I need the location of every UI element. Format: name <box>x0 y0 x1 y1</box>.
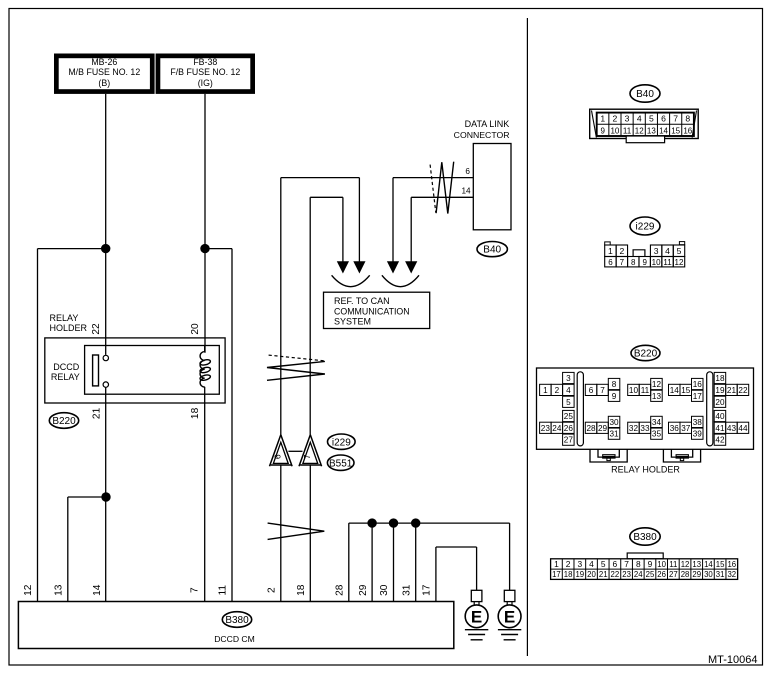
svg-text:16: 16 <box>727 560 736 569</box>
svg-text:1: 1 <box>543 386 548 395</box>
svg-text:(IG): (IG) <box>198 78 213 88</box>
svg-text:7: 7 <box>620 258 625 267</box>
svg-text:10: 10 <box>610 126 619 135</box>
svg-text:5: 5 <box>677 246 682 256</box>
svg-text:10: 10 <box>629 386 639 395</box>
svg-text:15: 15 <box>716 560 725 569</box>
svg-text:8: 8 <box>612 380 617 389</box>
svg-text:9: 9 <box>642 258 647 267</box>
svg-text:5: 5 <box>601 559 606 569</box>
svg-text:37: 37 <box>681 424 691 433</box>
svg-text:SYSTEM: SYSTEM <box>334 316 371 326</box>
svg-text:7: 7 <box>624 559 629 569</box>
svg-text:18: 18 <box>296 584 307 596</box>
svg-text:5: 5 <box>649 114 654 124</box>
svg-text:7: 7 <box>302 454 312 459</box>
svg-text:22: 22 <box>738 386 748 395</box>
svg-text:30: 30 <box>379 584 390 596</box>
svg-text:16: 16 <box>693 380 703 389</box>
svg-text:RELAY HOLDER: RELAY HOLDER <box>611 465 680 475</box>
svg-text:21: 21 <box>91 407 102 419</box>
svg-text:6: 6 <box>613 559 618 569</box>
svg-text:B220: B220 <box>634 349 658 360</box>
svg-text:RELAY: RELAY <box>51 372 80 382</box>
svg-text:43: 43 <box>727 424 737 433</box>
svg-text:2: 2 <box>267 587 278 593</box>
svg-text:2: 2 <box>619 246 624 256</box>
svg-text:22: 22 <box>611 570 620 579</box>
svg-text:9: 9 <box>601 126 606 135</box>
svg-text:8: 8 <box>636 559 641 569</box>
svg-text:28: 28 <box>586 424 596 433</box>
svg-text:4: 4 <box>589 559 594 569</box>
svg-text:REF. TO CAN: REF. TO CAN <box>334 296 390 306</box>
svg-text:27: 27 <box>669 570 678 579</box>
svg-text:10: 10 <box>652 258 661 267</box>
svg-text:13: 13 <box>54 584 65 596</box>
svg-text:6: 6 <box>608 258 613 267</box>
svg-text:29: 29 <box>598 424 608 433</box>
svg-text:12: 12 <box>23 584 34 596</box>
svg-text:30: 30 <box>704 570 713 579</box>
svg-text:25: 25 <box>564 412 574 421</box>
svg-text:M/B FUSE NO. 12: M/B FUSE NO. 12 <box>68 67 140 77</box>
svg-text:17: 17 <box>693 392 703 401</box>
svg-text:7: 7 <box>190 587 201 593</box>
svg-text:7: 7 <box>600 386 605 395</box>
svg-text:21: 21 <box>727 386 737 395</box>
svg-text:40: 40 <box>715 412 725 421</box>
svg-text:16: 16 <box>683 126 692 135</box>
svg-text:E: E <box>471 607 482 626</box>
svg-text:CONNECTOR: CONNECTOR <box>454 130 510 140</box>
svg-text:4: 4 <box>566 386 571 395</box>
svg-text:14: 14 <box>461 186 471 195</box>
svg-text:11: 11 <box>218 585 229 596</box>
svg-text:3: 3 <box>577 559 582 569</box>
svg-text:31: 31 <box>609 430 619 439</box>
svg-text:DATA LINK: DATA LINK <box>465 119 510 129</box>
svg-text:11: 11 <box>669 560 677 569</box>
svg-text:42: 42 <box>715 436 725 445</box>
svg-text:12: 12 <box>675 258 684 267</box>
svg-text:25: 25 <box>646 570 655 579</box>
svg-text:14: 14 <box>92 584 103 596</box>
svg-text:DCCD CM: DCCD CM <box>214 634 255 644</box>
svg-text:28: 28 <box>335 584 346 596</box>
svg-text:E: E <box>504 607 515 626</box>
svg-text:3: 3 <box>654 246 659 256</box>
svg-text:10: 10 <box>657 560 666 569</box>
svg-text:5: 5 <box>566 398 571 407</box>
svg-text:31: 31 <box>716 570 725 579</box>
svg-text:3: 3 <box>566 374 571 383</box>
svg-text:30: 30 <box>609 418 619 427</box>
svg-text:COMMUNICATION: COMMUNICATION <box>334 306 410 316</box>
svg-text:11: 11 <box>623 126 632 135</box>
svg-text:26: 26 <box>564 424 574 433</box>
svg-text:9: 9 <box>648 559 653 569</box>
svg-text:MT-10064: MT-10064 <box>708 654 758 666</box>
svg-text:24: 24 <box>634 570 643 579</box>
svg-text:39: 39 <box>693 430 703 439</box>
svg-text:B220: B220 <box>52 416 76 427</box>
svg-text:33: 33 <box>640 424 650 433</box>
svg-text:36: 36 <box>670 424 680 433</box>
svg-text:B551: B551 <box>329 458 353 469</box>
svg-text:12: 12 <box>681 560 690 569</box>
svg-text:34: 34 <box>652 418 662 427</box>
svg-text:26: 26 <box>657 570 666 579</box>
svg-text:B380: B380 <box>633 532 657 543</box>
svg-text:38: 38 <box>693 418 703 427</box>
svg-text:32: 32 <box>727 570 736 579</box>
svg-text:i229: i229 <box>332 437 351 448</box>
svg-text:6: 6 <box>272 454 282 459</box>
svg-text:6: 6 <box>661 114 666 124</box>
svg-text:44: 44 <box>738 424 748 433</box>
svg-text:1: 1 <box>600 114 605 124</box>
svg-text:14: 14 <box>659 126 668 135</box>
svg-text:20: 20 <box>190 323 201 335</box>
svg-text:4: 4 <box>665 246 670 256</box>
svg-text:29: 29 <box>358 584 369 596</box>
svg-text:2: 2 <box>566 559 571 569</box>
svg-text:17: 17 <box>552 570 561 579</box>
svg-text:15: 15 <box>671 126 680 135</box>
svg-text:7: 7 <box>673 114 678 124</box>
svg-text:35: 35 <box>652 430 662 439</box>
svg-text:(B): (B) <box>98 78 110 88</box>
svg-text:28: 28 <box>681 570 690 579</box>
svg-text:HOLDER: HOLDER <box>50 323 88 333</box>
svg-text:32: 32 <box>629 424 639 433</box>
svg-text:9: 9 <box>612 392 617 401</box>
svg-text:18: 18 <box>564 570 573 579</box>
svg-text:2: 2 <box>613 114 618 124</box>
svg-text:8: 8 <box>631 258 636 267</box>
svg-text:15: 15 <box>681 386 691 395</box>
svg-text:13: 13 <box>692 560 701 569</box>
svg-text:B40: B40 <box>483 245 501 256</box>
svg-text:12: 12 <box>635 126 644 135</box>
svg-text:12: 12 <box>652 380 662 389</box>
svg-text:29: 29 <box>692 570 701 579</box>
svg-text:11: 11 <box>663 258 672 267</box>
svg-text:3: 3 <box>625 114 630 124</box>
svg-text:14: 14 <box>670 386 680 395</box>
svg-text:41: 41 <box>715 424 725 433</box>
svg-text:B380: B380 <box>225 615 249 626</box>
svg-text:DCCD: DCCD <box>53 362 79 372</box>
svg-text:8: 8 <box>685 114 690 124</box>
svg-text:B40: B40 <box>636 89 654 100</box>
svg-text:22: 22 <box>91 323 102 335</box>
svg-text:18: 18 <box>715 374 725 383</box>
svg-text:i229: i229 <box>636 222 655 233</box>
svg-text:31: 31 <box>401 584 412 596</box>
svg-text:2: 2 <box>555 386 560 395</box>
svg-text:13: 13 <box>652 392 662 401</box>
svg-text:27: 27 <box>564 436 574 445</box>
svg-text:23: 23 <box>541 424 551 433</box>
svg-text:F/B FUSE NO. 12: F/B FUSE NO. 12 <box>170 67 240 77</box>
svg-text:20: 20 <box>587 570 596 579</box>
svg-text:13: 13 <box>647 126 656 135</box>
svg-text:20: 20 <box>715 398 725 407</box>
svg-text:17: 17 <box>422 584 433 596</box>
svg-text:18: 18 <box>190 407 201 419</box>
svg-text:19: 19 <box>575 570 584 579</box>
svg-text:1: 1 <box>608 246 613 256</box>
svg-text:6: 6 <box>465 167 470 176</box>
svg-text:1: 1 <box>554 559 559 569</box>
svg-text:23: 23 <box>622 570 631 579</box>
svg-text:14: 14 <box>704 560 713 569</box>
svg-text:24: 24 <box>552 424 562 433</box>
svg-text:11: 11 <box>641 386 650 395</box>
svg-text:21: 21 <box>599 570 608 579</box>
svg-text:RELAY: RELAY <box>50 313 79 323</box>
svg-text:4: 4 <box>637 114 642 124</box>
svg-text:19: 19 <box>715 386 725 395</box>
svg-text:MB-26: MB-26 <box>91 57 117 67</box>
svg-text:6: 6 <box>589 386 594 395</box>
svg-text:FB-38: FB-38 <box>193 57 217 67</box>
